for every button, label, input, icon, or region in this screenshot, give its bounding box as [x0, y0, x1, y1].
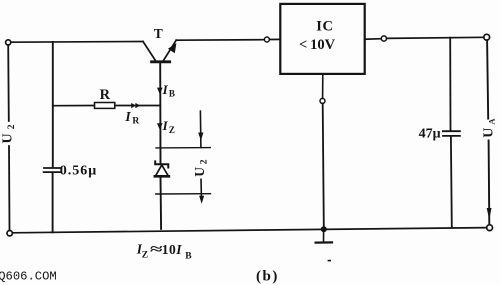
svg-text:U: U [1, 133, 16, 143]
transistor Q1 base bar [152, 60, 170, 63]
wire pin to IC box [270, 38, 281, 40]
IC ground pin circle [320, 98, 325, 103]
wire left rail lower [8, 146, 11, 230]
svg-text:I: I [162, 118, 169, 133]
svg-text:2: 2 [7, 124, 17, 129]
UZ measure bottom tick [156, 193, 211, 195]
ground [316, 232, 332, 262]
UZ arrow line lower [200, 179, 202, 196]
svg-text:I: I [162, 82, 169, 97]
current arrow IR [131, 103, 140, 108]
wire top-left to transistor [11, 41, 143, 44]
wire transistor to IC [176, 39, 264, 42]
UZ arrow head upper [198, 133, 203, 141]
node UZ label [192, 159, 209, 177]
output terminal top-right [484, 34, 490, 40]
UZ arrow head lower [199, 196, 204, 204]
svg-text:B: B [169, 89, 175, 99]
IC input pin circle [264, 37, 269, 42]
svg-text:I: I [175, 242, 182, 257]
label IB [162, 82, 175, 99]
op-amp U1 IC box [280, 4, 364, 74]
resistor R [95, 103, 115, 109]
IC ground pin lead [322, 74, 324, 98]
formula IZ = 10 IB [136, 241, 193, 261]
svg-text:0.56μ: 0.56μ [60, 164, 97, 179]
svg-text:A: A [487, 118, 497, 125]
capacitor C2 47u [443, 131, 460, 136]
input terminal bottom-left [7, 231, 12, 236]
wire capacitor to bottom rail [52, 173, 54, 232]
wire output pin to right rail [387, 37, 484, 38]
input terminal top-left [6, 40, 11, 45]
svg-text:47μ: 47μ [419, 126, 441, 141]
svg-text:IC: IC [316, 18, 333, 34]
label IZ [162, 118, 175, 135]
svg-text:T: T [154, 26, 163, 41]
UA arrow head [487, 208, 492, 220]
svg-text:B: B [185, 251, 192, 261]
UA rail upper [487, 40, 488, 118]
svg-text:2: 2 [199, 159, 209, 164]
svg-text:Q606.COM: Q606.COM [0, 270, 57, 284]
svg-text:I: I [124, 109, 131, 124]
svg-text:< 10V: < 10V [299, 37, 336, 53]
zener diode D1 cathode bar [155, 161, 168, 167]
UA rail lower [488, 141, 491, 225]
current arrow IZ [157, 123, 163, 130]
junction dot [321, 226, 327, 232]
node UA label [482, 118, 497, 138]
wire resistor to base node [115, 105, 160, 107]
transistor Q1 collector diagonal [143, 42, 156, 61]
wire base lead vertical [159, 63, 161, 164]
wire right cap branch lower [450, 137, 453, 227]
wire right cap branch upper [449, 38, 451, 131]
svg-text:U: U [482, 128, 497, 138]
UZ arrow line upper [199, 111, 202, 147]
wire bottom rail [13, 228, 487, 233]
svg-text:Z: Z [169, 125, 175, 135]
wire IC box to output pin [365, 38, 381, 41]
svg-text:10: 10 [162, 242, 176, 257]
IC output pin circle [381, 36, 386, 41]
wire middle vertical upper [52, 42, 54, 167]
node U2 input label [1, 124, 17, 143]
wire to resistor R [53, 105, 95, 107]
label IR [124, 109, 139, 126]
svg-text:U: U [192, 167, 207, 177]
svg-text:Z: Z [142, 250, 148, 260]
current arrow IB [157, 88, 163, 95]
capacitor C1 0.56u [44, 168, 61, 172]
svg-text:R: R [100, 87, 111, 103]
wire ground pin to bottom rail [323, 104, 324, 228]
svg-text:(b): (b) [256, 268, 279, 284]
wire left rail upper [7, 45, 10, 121]
zener diode D1 triangle [155, 165, 168, 176]
output terminal bottom-right [487, 225, 493, 231]
wire zener to bottom rail [160, 177, 163, 229]
UZ measure top tick [156, 147, 210, 149]
transistor Q1 emitter diagonal [163, 40, 176, 60]
svg-text:R: R [132, 117, 139, 127]
transistor Q1 emitter arrow [168, 43, 176, 53]
